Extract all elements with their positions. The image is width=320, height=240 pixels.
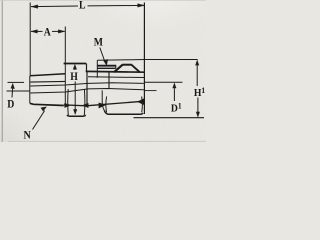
thread inner line [30, 80, 65, 83]
svg-text:H: H [70, 70, 78, 83]
leader M [100, 48, 108, 66]
hex right edge lower [86, 71, 88, 105]
thread top edge [30, 74, 66, 76]
stub thread end tick [115, 65, 117, 69]
nut lower-left outer edge [102, 90, 104, 110]
scan page top edge artifact [0, 0, 206, 1]
scan page left edge artifact [1, 0, 3, 142]
leader N [33, 107, 47, 130]
dimension D1 arrow up [173, 83, 177, 101]
bore line lower [30, 89, 144, 94]
D1 extension line [145, 81, 183, 83]
svg-text:D: D [7, 98, 14, 111]
nut lower face boundary left [105, 97, 108, 113]
nut top face [122, 64, 131, 66]
extension line left / thread end cap [29, 3, 31, 76]
wedge nut lower-right [137, 99, 144, 105]
hex lower inner vertical right [83, 89, 86, 115]
centerline stub right [144, 90, 156, 92]
nut flange line [88, 76, 144, 79]
dimension A line [31, 30, 65, 34]
dimension H arrow up [73, 64, 77, 70]
bore line upper [30, 83, 144, 86]
hex bottom face [67, 114, 86, 117]
D extension line upper [8, 81, 25, 83]
H1 top extension line [144, 59, 197, 61]
stub thread root line [98, 67, 116, 69]
extension line L right / part right edge [143, 3, 145, 115]
nut chamfer left [114, 65, 123, 73]
dimension H arrow down [73, 82, 77, 115]
svg-text:L: L [79, 0, 86, 12]
dimension H1 upper arrow [195, 60, 199, 86]
centerline stub left [7, 90, 30, 92]
lower silhouette line across hex stub and nut [64, 101, 145, 106]
nut bottom face [104, 110, 143, 114]
stub thread line top [97, 65, 116, 67]
hex right edge upper [86, 64, 88, 72]
stub top line to right edge [97, 59, 144, 62]
seat and nut shoulder line [86, 70, 145, 73]
nut lower face boundary right [141, 97, 144, 113]
thread left end cap [29, 76, 31, 104]
extension line A right / hex left edge [64, 27, 66, 105]
wedge hex lower-right [82, 103, 88, 107]
stub cap vertical [96, 60, 98, 78]
svg-text:N: N [24, 129, 31, 142]
thread bottom edge [30, 103, 64, 105]
dimension H1 lower arrow [196, 98, 200, 118]
H1 bottom extension line [134, 117, 205, 119]
dimension D arrow up [11, 83, 15, 97]
svg-text:A: A [44, 26, 51, 39]
paper background [0, 0, 206, 142]
hex top face [64, 63, 87, 65]
hex lower inner vertical left [67, 89, 70, 115]
svg-text:M: M [94, 36, 103, 49]
nut left edge [108, 72, 110, 88]
scan page bottom edge artifact [8, 140, 206, 142]
wedge nut lower-left [99, 103, 106, 108]
dimension L line [31, 4, 144, 9]
wedge hex lower-left [65, 103, 71, 107]
nut chamfer right [131, 65, 139, 73]
